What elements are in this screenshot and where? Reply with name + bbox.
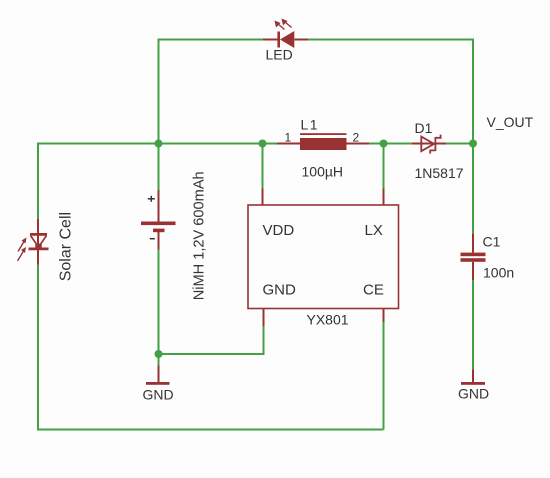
- svg-text:100n: 100n: [483, 265, 514, 281]
- inductor L1 body: [300, 138, 347, 150]
- IC U1 LX pin stub: [383, 189, 385, 206]
- svg-text:C1: C1: [483, 234, 501, 250]
- svg-text:YX801: YX801: [307, 312, 349, 328]
- svg-text:L1: L1: [301, 117, 320, 133]
- ground symbol left bar: [146, 382, 170, 385]
- svg-text:VDD: VDD: [263, 222, 295, 239]
- wire C1 top: [472, 144, 474, 235]
- svg-text:1: 1: [285, 131, 292, 145]
- capacitor C1 top pin: [472, 234, 474, 253]
- svg-text:V_OUT: V_OUT: [487, 114, 534, 130]
- diode D1 triangle: [421, 137, 434, 152]
- battery bottom pin: [158, 232, 160, 250]
- svg-text:GND: GND: [458, 386, 489, 402]
- svg-text:CE: CE: [363, 282, 384, 299]
- wire CE pin vertical: [383, 322, 385, 430]
- wire bottom rail: [37, 429, 384, 431]
- wire VDD pin vertical: [262, 144, 264, 189]
- svg-text:D1: D1: [415, 120, 433, 136]
- ground symbol right pin: [472, 370, 474, 383]
- wire battery top: [158, 144, 160, 191]
- node V_OUT junction: [469, 140, 477, 148]
- battery top pin: [158, 190, 160, 222]
- battery plus sign: [148, 196, 155, 202]
- wire gnd node to IC GND pin: [159, 326, 264, 354]
- LED triangle: [280, 31, 294, 48]
- ground symbol right bar: [461, 382, 485, 385]
- solar cell cathode bar: [29, 247, 49, 250]
- node junction at GND net: [155, 350, 163, 358]
- svg-text:100µH: 100µH: [302, 164, 344, 180]
- wire main rail left section: [38, 143, 277, 145]
- wire C1 bottom to gnd: [472, 280, 474, 370]
- ground symbol left pin: [158, 366, 160, 383]
- capacitor C1 plate 1: [461, 253, 486, 257]
- IC U1 CE pin stub: [383, 309, 385, 323]
- capacitor C1 plate 2: [461, 258, 486, 262]
- inductor L1 top bar: [300, 133, 347, 135]
- battery positive plate: [141, 222, 176, 226]
- diode D1 left pin: [412, 143, 434, 145]
- wire main rail between L1 and D1: [369, 143, 412, 145]
- LED light arrow 2: [282, 19, 292, 28]
- inductor L1 left pin: [277, 143, 300, 145]
- battery negative plate: [153, 229, 165, 233]
- wire main rail D1 to V_OUT node: [446, 143, 473, 145]
- svg-text:LED: LED: [266, 47, 293, 63]
- IC U1 VDD pin stub: [262, 189, 264, 206]
- LED light arrow 1: [275, 21, 285, 30]
- inductor L1 right pin: [347, 143, 370, 145]
- svg-text:GND: GND: [143, 387, 174, 403]
- diode D1 schottky cathode bar: [430, 135, 440, 154]
- wire top-right vertical (top rail to V_OUT node): [472, 39, 474, 144]
- svg-text:GND: GND: [263, 282, 297, 299]
- svg-text:LX: LX: [365, 222, 383, 239]
- diode D1 right pin: [434, 143, 446, 145]
- wire gnd node stub: [158, 354, 160, 366]
- solar cell triangle: [30, 234, 47, 249]
- battery minus sign: [150, 238, 155, 240]
- svg-text:1N5817: 1N5817: [415, 165, 464, 181]
- wire top rail left of LED: [159, 39, 264, 41]
- IC U1 GND pin stub: [263, 309, 265, 327]
- wire LX pin vertical: [383, 144, 385, 189]
- IC U1 box: [248, 205, 399, 309]
- svg-text:2: 2: [353, 131, 360, 145]
- wire top rail right of LED: [308, 39, 474, 41]
- node junction at VDD column: [259, 140, 267, 148]
- LED D-LED pins: [263, 39, 308, 41]
- capacitor C1 bottom pin: [472, 262, 474, 280]
- svg-text:Solar Cell: Solar Cell: [58, 212, 75, 281]
- solar cell light arrow 1: [18, 238, 27, 252]
- wire battery bottom to gnd node: [158, 250, 160, 355]
- solar cell light arrow 2: [18, 247, 27, 261]
- solar cell pin: [37, 219, 39, 265]
- wire solar cell bottom to bottom rail: [37, 265, 39, 430]
- svg-text:NiMH 1,2V 600mAh: NiMH 1,2V 600mAh: [192, 171, 208, 300]
- wire solar cell top: [37, 143, 39, 220]
- wire top-left vertical (top rail to main rail): [158, 39, 160, 144]
- LED cathode bar: [277, 32, 280, 48]
- node junction at LX column: [380, 140, 388, 148]
- node junction at battery top: [155, 140, 163, 148]
